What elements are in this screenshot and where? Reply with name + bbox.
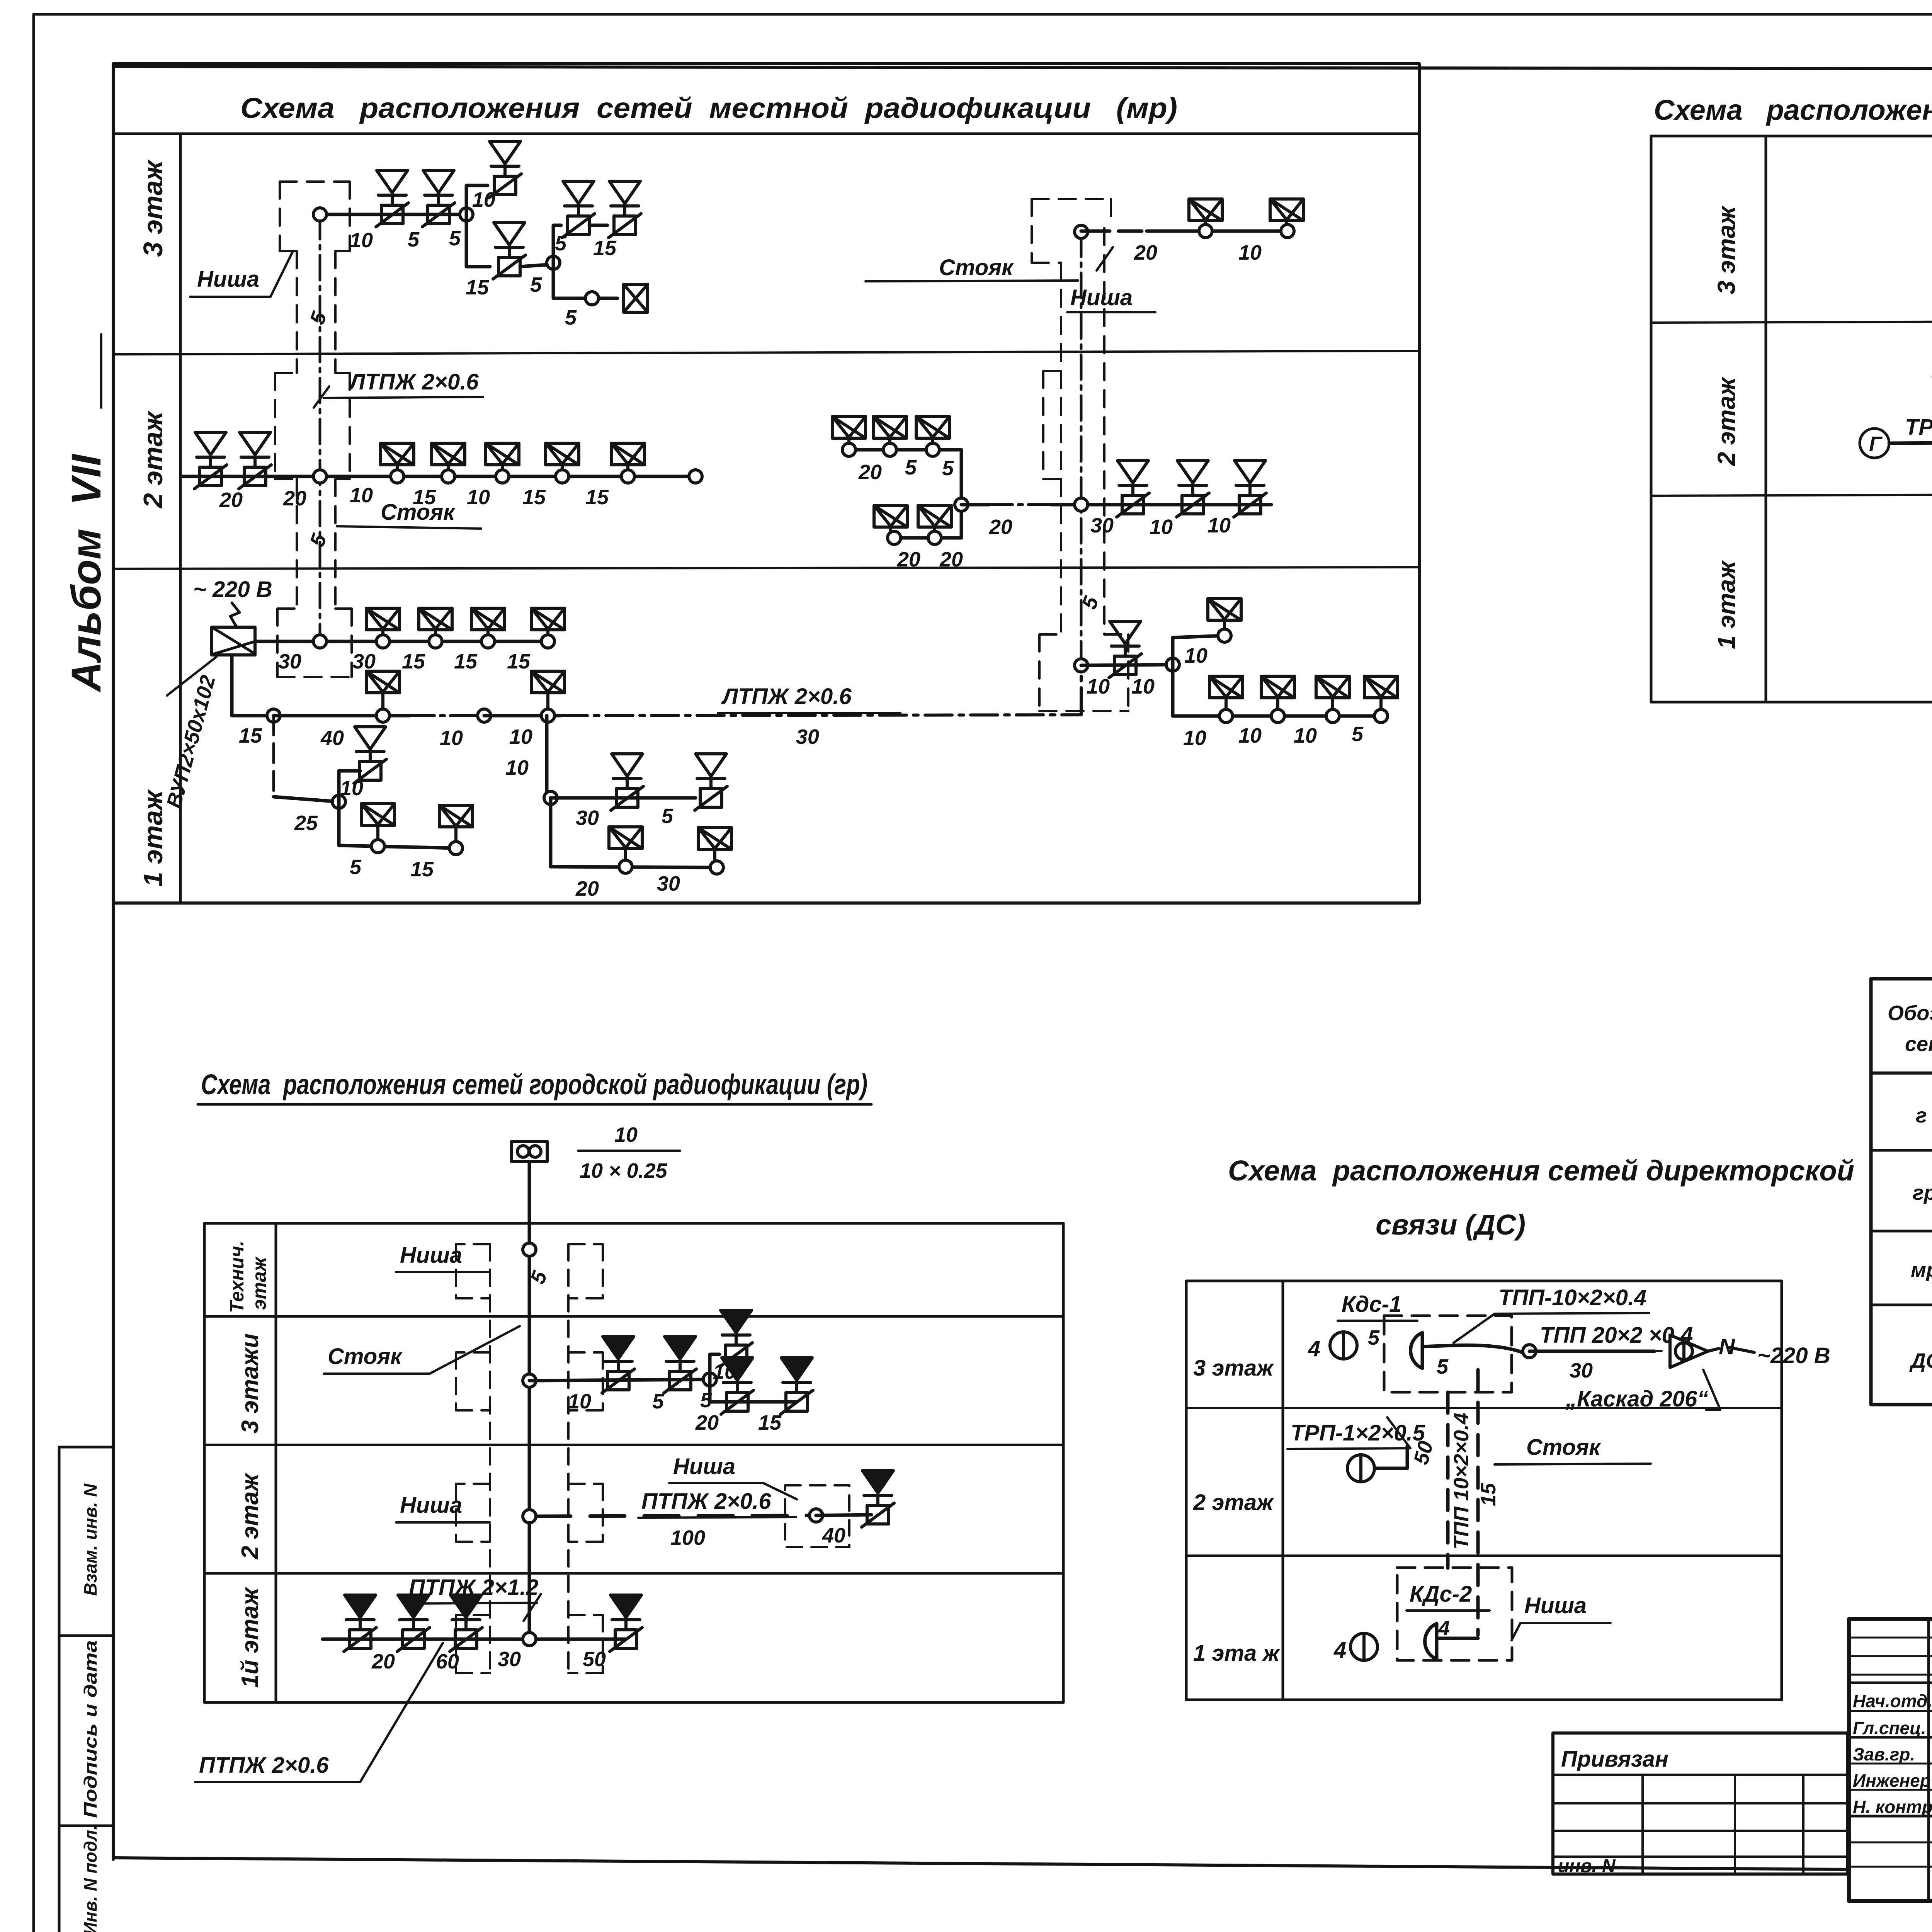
outlet socket with stem bbox=[376, 825, 379, 846]
loudspeaker with limiter bbox=[354, 727, 386, 783]
loudspeaker filled with limiter on wire bbox=[397, 1595, 430, 1651]
svg-text:ТПП 10×2×0.4: ТПП 10×2×0.4 bbox=[1450, 1413, 1473, 1549]
outlet socket with stem bbox=[713, 850, 716, 867]
svg-text:Ниша: Ниша bbox=[400, 1493, 462, 1518]
svg-text:10: 10 bbox=[472, 188, 495, 211]
loudspeaker filled with limiter on wire bbox=[450, 1595, 482, 1651]
curve to junction bbox=[1453, 1345, 1522, 1352]
loudspeaker with limiter on wire bbox=[1177, 461, 1209, 517]
svg-text:30: 30 bbox=[1570, 1359, 1593, 1382]
svg-text:10: 10 bbox=[1131, 675, 1155, 698]
branch down right to end box bbox=[553, 263, 617, 298]
DS riser dashed pair bbox=[1446, 1392, 1450, 1568]
svg-text:гр: гр bbox=[1913, 1181, 1932, 1204]
N wire and 220V bbox=[1708, 1347, 1754, 1352]
feed arrow to amplifier bbox=[230, 603, 240, 627]
svg-text:ПТПЖ 2×0.6: ПТПЖ 2×0.6 bbox=[199, 1753, 329, 1778]
outlet socket with stem bbox=[1204, 221, 1207, 231]
outlet socket with stem bbox=[396, 466, 399, 476]
svg-text:1 эта ж: 1 эта ж bbox=[1193, 1641, 1281, 1666]
outlet socket with stem bbox=[434, 631, 437, 641]
GR antenna input bbox=[512, 1141, 547, 1162]
MR right section niche dashed 3fl bbox=[1032, 199, 1128, 711]
DS schematic box bbox=[1186, 1281, 1782, 1700]
svg-text:20: 20 bbox=[283, 487, 306, 510]
loudspeaker with limiter on wire bbox=[1117, 461, 1149, 517]
svg-text:10: 10 bbox=[1183, 726, 1206, 750]
svg-text:Н. контр.: Н. контр. bbox=[1853, 1797, 1932, 1817]
svg-text:10: 10 bbox=[614, 1123, 638, 1146]
svg-text:5: 5 bbox=[350, 855, 362, 879]
svg-text:10: 10 bbox=[1184, 644, 1207, 667]
outlet socket with stem (lower row) bbox=[889, 527, 892, 538]
nisha dashed box right bbox=[785, 1485, 849, 1547]
outlet socket with stem bbox=[888, 439, 891, 450]
MR right riser dash-dot bbox=[1080, 232, 1083, 665]
svg-text:г т: г т bbox=[1916, 1104, 1932, 1127]
loudspeaker with limiter bbox=[562, 181, 595, 238]
svg-text:15: 15 bbox=[466, 276, 489, 299]
svg-text:5: 5 bbox=[1437, 1355, 1449, 1378]
wire to riser 2fl right bbox=[961, 503, 989, 507]
privyazan block frame bbox=[1553, 1733, 1847, 1874]
svg-text:Стояк: Стояк bbox=[939, 255, 1014, 280]
dashed drop to lower net bbox=[272, 716, 275, 797]
outlet socket with stem bbox=[1225, 699, 1228, 716]
GR 2fl junction bbox=[523, 1510, 536, 1523]
outlet socket with stem bbox=[381, 631, 384, 641]
outlet socket with stem bbox=[454, 827, 457, 848]
junction at riser 1fl bbox=[523, 1633, 536, 1646]
svg-text:Подпись и дата: Подпись и дата bbox=[80, 1640, 100, 1818]
branch down wire bbox=[1173, 665, 1381, 716]
svg-text:этаж: этаж bbox=[248, 1256, 270, 1310]
svg-text:30: 30 bbox=[1090, 514, 1114, 537]
svg-text:„Каскад 206“: „Каскад 206“ bbox=[1565, 1386, 1708, 1412]
svg-text:~ 220 В: ~ 220 В bbox=[193, 577, 272, 602]
svg-text:20: 20 bbox=[371, 1650, 395, 1673]
loudspeaker filled with limiter bbox=[664, 1337, 696, 1393]
svg-text:20: 20 bbox=[897, 548, 920, 571]
GT floor label column bbox=[1765, 136, 1767, 702]
svg-text:20: 20 bbox=[989, 515, 1012, 539]
MR right 2fl top outlet row bbox=[849, 450, 961, 538]
branch down wire bbox=[339, 802, 456, 848]
loudspeaker with limiter bbox=[489, 141, 521, 198]
svg-text:Альбом VII: Альбом VII bbox=[63, 454, 109, 693]
wire between limiters bbox=[589, 224, 607, 227]
branch up right bbox=[553, 225, 561, 263]
svg-text:10: 10 bbox=[505, 756, 529, 779]
outlet socket with stem bbox=[1223, 621, 1226, 636]
branch up right to outlet bbox=[1173, 636, 1225, 665]
svg-text:10: 10 bbox=[509, 725, 532, 748]
DS floor divider 3/2 bbox=[1186, 1407, 1782, 1409]
junction at riser 1fl bbox=[313, 635, 327, 648]
GR niche dashed channel bbox=[456, 1244, 603, 1673]
outlet socket with stem bbox=[1276, 699, 1279, 716]
svg-text:Инженер: Инженер bbox=[1853, 1770, 1931, 1791]
junction circle on vertical bbox=[955, 498, 968, 511]
branch up to limiter bbox=[339, 771, 360, 802]
end junction circle bbox=[689, 470, 702, 483]
GR 2fl dashed feeder bbox=[536, 1515, 816, 1516]
branch down from junction bbox=[466, 214, 490, 267]
MR 1fl drop from amplifier bbox=[232, 655, 274, 716]
svg-text:10: 10 bbox=[467, 486, 490, 509]
svg-text:5: 5 bbox=[662, 804, 673, 828]
wire to limiter bbox=[816, 1515, 871, 1515]
wire bbox=[484, 714, 560, 718]
svg-text:15: 15 bbox=[402, 650, 425, 673]
junction circle bbox=[585, 292, 599, 305]
loudspeaker filled with limiter on wire bbox=[344, 1595, 376, 1651]
MR 1fl feeder wire bbox=[274, 714, 410, 718]
svg-text:3 этаж: 3 этаж bbox=[1713, 205, 1740, 294]
svg-text:10: 10 bbox=[568, 1390, 591, 1413]
junction circle bbox=[460, 208, 473, 221]
svg-text:Инв. N подл.: Инв. N подл. bbox=[80, 1825, 100, 1932]
GT floor divider 3/2 bbox=[1651, 320, 1932, 323]
svg-text:100: 100 bbox=[670, 1526, 705, 1549]
MR floor label column bbox=[179, 134, 182, 903]
svg-text:60: 60 bbox=[436, 1650, 459, 1673]
svg-text:ПТПЖ 2×0.6: ПТПЖ 2×0.6 bbox=[641, 1489, 771, 1514]
branch up limiter bbox=[710, 1354, 719, 1379]
svg-text:40: 40 bbox=[822, 1524, 845, 1547]
svg-text:50: 50 bbox=[583, 1648, 606, 1671]
DS floor divider 2/1 bbox=[1186, 1554, 1782, 1557]
svg-text:2 этаж: 2 этаж bbox=[138, 410, 168, 509]
DS 1fl niche dashed bbox=[1397, 1568, 1512, 1660]
GT schematic box bbox=[1651, 136, 1932, 702]
loudspeaker with limiter on wire bbox=[1234, 461, 1266, 517]
left margin stamp column bbox=[59, 1447, 113, 1932]
outlet socket with stem bbox=[1379, 699, 1383, 716]
svg-text:15: 15 bbox=[410, 858, 434, 881]
junction circle bbox=[703, 1373, 716, 1386]
svg-text:30: 30 bbox=[498, 1648, 521, 1671]
title block thin top rows bbox=[1849, 1638, 1932, 1675]
table frame bbox=[1871, 979, 1932, 1405]
loudspeaker filled with limiter bbox=[781, 1358, 813, 1414]
svg-text:ПТПЖ 2×1.2: ПТПЖ 2×1.2 bbox=[409, 1575, 539, 1600]
wire junction to amp bbox=[1529, 1350, 1655, 1353]
svg-text:Ниша: Ниша bbox=[1070, 285, 1133, 310]
svg-text:2 этаж: 2 этаж bbox=[1193, 1490, 1274, 1515]
svg-text:5: 5 bbox=[565, 306, 577, 329]
outlet socket with stem bbox=[931, 439, 934, 450]
svg-text:ТРП-1×2×0.5: ТРП-1×2×0.5 bbox=[1905, 415, 1932, 440]
svg-text:Обознач.: Обознач. bbox=[1888, 1002, 1932, 1025]
svg-text:ЛТПЖ 2×0.6: ЛТПЖ 2×0.6 bbox=[721, 684, 852, 709]
svg-text:ДС: ДС bbox=[1909, 1349, 1932, 1372]
GR riser solid bbox=[528, 1223, 531, 1639]
outlet socket with stem bbox=[486, 631, 490, 641]
junction circle DS bbox=[1523, 1345, 1536, 1358]
loudspeaker filled with limiter on wire bbox=[610, 1595, 642, 1651]
MR riser dash-dot 1st section bbox=[319, 214, 321, 641]
MR 3fl wire from riser bbox=[320, 213, 466, 216]
svg-text:10: 10 bbox=[1207, 514, 1231, 537]
DS floor label column bbox=[1282, 1281, 1284, 1700]
GR floor divider tech/3 bbox=[204, 1315, 1063, 1318]
svg-text:5: 5 bbox=[408, 228, 420, 251]
svg-text:1 этаж: 1 этаж bbox=[1713, 560, 1740, 649]
loudspeaker with limiter bbox=[611, 754, 643, 810]
svg-text:~220 В: ~220 В bbox=[1757, 1343, 1830, 1368]
MR schematic box bbox=[113, 64, 1419, 903]
svg-text:сети: сети bbox=[1905, 1032, 1932, 1056]
title block row lines bbox=[1849, 1682, 1932, 1684]
svg-text:Схема расположения сетей гор: Схема расположения сетей городской телеф… bbox=[1654, 94, 1932, 126]
svg-text:Ниша: Ниша bbox=[1524, 1593, 1587, 1618]
svg-text:5: 5 bbox=[449, 227, 461, 250]
svg-text:10: 10 bbox=[1087, 675, 1110, 698]
loudspeaker filled with limiter bbox=[602, 1337, 634, 1393]
svg-text:15: 15 bbox=[522, 486, 546, 509]
svg-text:Технич.: Технич. bbox=[226, 1241, 248, 1313]
junction at riser 2fl bbox=[313, 470, 327, 483]
branch up from junction to limiter bbox=[466, 185, 488, 214]
svg-text:20: 20 bbox=[858, 461, 882, 484]
svg-text:30: 30 bbox=[576, 806, 599, 830]
GR 3fl junction bbox=[523, 1374, 536, 1387]
main frame bottom edge bbox=[113, 1858, 1847, 1869]
svg-text:15: 15 bbox=[239, 724, 262, 747]
MR floor divider 3/2 bbox=[113, 351, 1419, 354]
svg-text:5: 5 bbox=[530, 273, 542, 296]
junction at riser 3fl right bbox=[1075, 225, 1088, 238]
GR tech floor junction bbox=[523, 1243, 536, 1256]
svg-text:5: 5 bbox=[905, 456, 917, 479]
outlet socket with stem bbox=[501, 466, 504, 476]
svg-text:ТПП-10×2×0.4: ТПП-10×2×0.4 bbox=[1498, 1285, 1646, 1310]
outlet socket with stem bbox=[561, 466, 564, 476]
svg-text:40: 40 bbox=[320, 726, 344, 750]
svg-text:4: 4 bbox=[1333, 1638, 1346, 1663]
svg-text:15: 15 bbox=[454, 650, 478, 673]
MR 1fl top wire bbox=[255, 640, 548, 643]
svg-text:10: 10 bbox=[1238, 241, 1262, 264]
wire right from niche bbox=[1081, 665, 1173, 665]
junction at riser bbox=[1075, 498, 1088, 511]
svg-text:мр: мр bbox=[1911, 1259, 1932, 1282]
drop to second lower net bbox=[545, 716, 549, 798]
DS 3fl niche dashed bbox=[1384, 1316, 1512, 1392]
svg-text:5: 5 bbox=[555, 232, 567, 255]
svg-text:Гл.спец.: Гл.спец. bbox=[1853, 1718, 1926, 1738]
svg-text:30: 30 bbox=[278, 650, 301, 673]
loudspeaker with limiter bbox=[376, 170, 408, 227]
branch down wire bbox=[710, 1379, 797, 1402]
loudspeaker filled with limiter bbox=[721, 1358, 753, 1414]
junction circle bbox=[544, 791, 557, 804]
svg-text:3 этаж: 3 этаж bbox=[138, 159, 168, 257]
G subscriber 2fl bbox=[1860, 429, 1889, 458]
svg-text:связи (ДС): связи (ДС) bbox=[1376, 1209, 1526, 1241]
loudspeaker with limiter bbox=[609, 181, 641, 238]
junction circle bbox=[1166, 658, 1179, 671]
svg-text:10 × 0.25: 10 × 0.25 bbox=[580, 1159, 668, 1182]
svg-text:Схема расположения сетей дире: Схема расположения сетей директорской bbox=[1228, 1155, 1854, 1187]
loudspeaker filled with limiter bbox=[862, 1471, 894, 1527]
MR title strip line bbox=[113, 133, 1419, 135]
junction circle bbox=[547, 256, 560, 269]
GR floor divider 2/1 bbox=[204, 1572, 1063, 1575]
svg-text:Ниша: Ниша bbox=[673, 1454, 735, 1479]
svg-text:Нач.отд.: Нач.отд. bbox=[1853, 1691, 1932, 1711]
loudspeaker with limiter bbox=[422, 170, 455, 227]
loudspeaker filled with limiter bbox=[720, 1310, 752, 1367]
loudspeaker with limiter bbox=[695, 754, 727, 810]
junction circle bbox=[332, 795, 345, 808]
loudspeaker with limiter on wire bbox=[1109, 621, 1141, 678]
GR 1fl wire bbox=[323, 1638, 626, 1641]
svg-text:Привязан: Привязан bbox=[1561, 1747, 1668, 1772]
svg-text:15: 15 bbox=[507, 650, 531, 673]
phone subscriber circle 2fl bbox=[1347, 1455, 1374, 1482]
outlet socket with stem bbox=[847, 439, 850, 450]
outlet socket with stem bbox=[1331, 699, 1334, 716]
top strip line bbox=[113, 66, 1932, 70]
svg-text:5: 5 bbox=[1352, 723, 1364, 746]
title block verticals left section bbox=[1929, 1619, 1932, 1901]
svg-text:КДс-2: КДс-2 bbox=[1410, 1582, 1472, 1607]
svg-text:инв. N: инв. N bbox=[1558, 1856, 1616, 1876]
GR schematic box bbox=[204, 1223, 1063, 1702]
MR 1fl amplifier bbox=[212, 627, 255, 655]
MR floor divider 2/1 bbox=[113, 567, 1419, 569]
svg-text:5: 5 bbox=[942, 457, 954, 480]
svg-text:10: 10 bbox=[350, 484, 373, 507]
svg-text:15: 15 bbox=[1477, 1483, 1500, 1506]
lower net wire bbox=[274, 797, 339, 802]
MR left niche dashed outline 3rd floor bbox=[275, 182, 352, 677]
svg-text:20: 20 bbox=[575, 877, 599, 900]
MR right 3fl wire bbox=[1081, 230, 1287, 233]
GR 3fl wire bbox=[529, 1379, 710, 1381]
wire from subscriber to riser bbox=[1374, 1446, 1407, 1468]
svg-text:N: N bbox=[1719, 1334, 1735, 1359]
svg-text:20: 20 bbox=[219, 488, 243, 512]
DS amplifier Kaskad bbox=[1670, 1335, 1708, 1367]
outlet socket with stem bbox=[447, 466, 450, 476]
svg-text:Ниша: Ниша bbox=[197, 267, 259, 292]
loudspeaker with limiter on wire bbox=[239, 432, 271, 489]
loudspeaker with limiter on wire bbox=[194, 432, 227, 489]
wire right bbox=[551, 796, 696, 800]
svg-text:10: 10 bbox=[340, 777, 363, 800]
svg-text:10: 10 bbox=[1294, 724, 1317, 747]
loudspeaker with limiter bbox=[493, 223, 526, 279]
svg-text:1й этаж: 1й этаж bbox=[237, 1587, 264, 1688]
svg-text:Взам. инв. N: Взам. инв. N bbox=[80, 1483, 100, 1596]
title block frame bbox=[1849, 1619, 1932, 1901]
feeder dash-dot segment bbox=[410, 714, 477, 717]
telephone outlet symbol DS 3fl bbox=[1411, 1333, 1422, 1368]
svg-text:10: 10 bbox=[1238, 724, 1262, 747]
junction circle bbox=[478, 709, 491, 722]
wire to junction bbox=[520, 264, 553, 267]
svg-text:4: 4 bbox=[1438, 1617, 1450, 1640]
svg-text:4: 4 bbox=[1308, 1336, 1320, 1361]
svg-text:15: 15 bbox=[585, 486, 609, 509]
svg-text:ЛТПЖ 2×0.6: ЛТПЖ 2×0.6 bbox=[348, 369, 479, 395]
outlet socket with stem bbox=[546, 694, 549, 716]
svg-text:10: 10 bbox=[1150, 515, 1173, 539]
junction circle bbox=[267, 709, 280, 722]
svg-text:5: 5 bbox=[1368, 1326, 1380, 1349]
svg-text:3 этажи: 3 этажи bbox=[237, 1333, 264, 1434]
outlet socket with stem bbox=[624, 849, 627, 867]
junction in niche bbox=[810, 1509, 823, 1522]
svg-text:Стояк: Стояк bbox=[1526, 1435, 1601, 1460]
svg-text:3 этаж: 3 этаж bbox=[1193, 1355, 1274, 1381]
svg-text:15: 15 bbox=[593, 236, 617, 260]
outlet socket with stem bbox=[381, 694, 384, 716]
svg-text:Кдс-1: Кдс-1 bbox=[1342, 1292, 1401, 1317]
crossed end box bbox=[624, 284, 648, 312]
svg-text:20: 20 bbox=[1134, 241, 1157, 264]
MR 2fl left wire bbox=[182, 475, 696, 478]
svg-text:Ниша: Ниша bbox=[400, 1243, 462, 1268]
svg-text:10: 10 bbox=[350, 229, 373, 252]
outlet socket with stem bbox=[1285, 221, 1288, 231]
svg-text:20: 20 bbox=[695, 1411, 719, 1434]
svg-text:Зав.гр.: Зав.гр. bbox=[1853, 1744, 1915, 1764]
GR floor divider 3/2 bbox=[204, 1444, 1063, 1446]
outlet socket with stem bbox=[546, 631, 549, 641]
svg-text:30: 30 bbox=[796, 725, 819, 748]
svg-text:Схема расположения сетей горо: Схема расположения сетей городской радио… bbox=[201, 1068, 867, 1100]
long feeder dash-dot to right section bbox=[560, 665, 1081, 716]
svg-text:Схема расположения сетей м: Схема расположения сетей местной радиофи… bbox=[240, 92, 1177, 124]
GT floor divider 2/1 bbox=[1651, 493, 1932, 496]
MR right 1fl niche junction bbox=[1075, 659, 1088, 672]
junction at riser 3fl bbox=[313, 208, 327, 221]
GR floor label column bbox=[275, 1223, 277, 1702]
outlet socket with stem bbox=[626, 466, 629, 476]
main frame left edge bbox=[112, 66, 115, 1859]
svg-text:10: 10 bbox=[440, 726, 463, 750]
branch down wire bbox=[551, 798, 717, 867]
svg-text:Стояк: Стояк bbox=[328, 1344, 403, 1369]
svg-text:20: 20 bbox=[939, 548, 963, 571]
svg-text:25: 25 bbox=[294, 811, 318, 835]
svg-text:2 этаж: 2 этаж bbox=[237, 1472, 264, 1560]
telephone outlet symbol DS 1fl bbox=[1425, 1624, 1437, 1659]
svg-text:30: 30 bbox=[657, 872, 680, 895]
svg-text:15: 15 bbox=[758, 1411, 782, 1434]
outlet socket with stem (lower row) bbox=[933, 527, 936, 538]
svg-text:Стояк: Стояк bbox=[381, 500, 456, 525]
table header bottom bbox=[1871, 1071, 1932, 1075]
svg-text:2 этаж: 2 этаж bbox=[1713, 376, 1740, 466]
